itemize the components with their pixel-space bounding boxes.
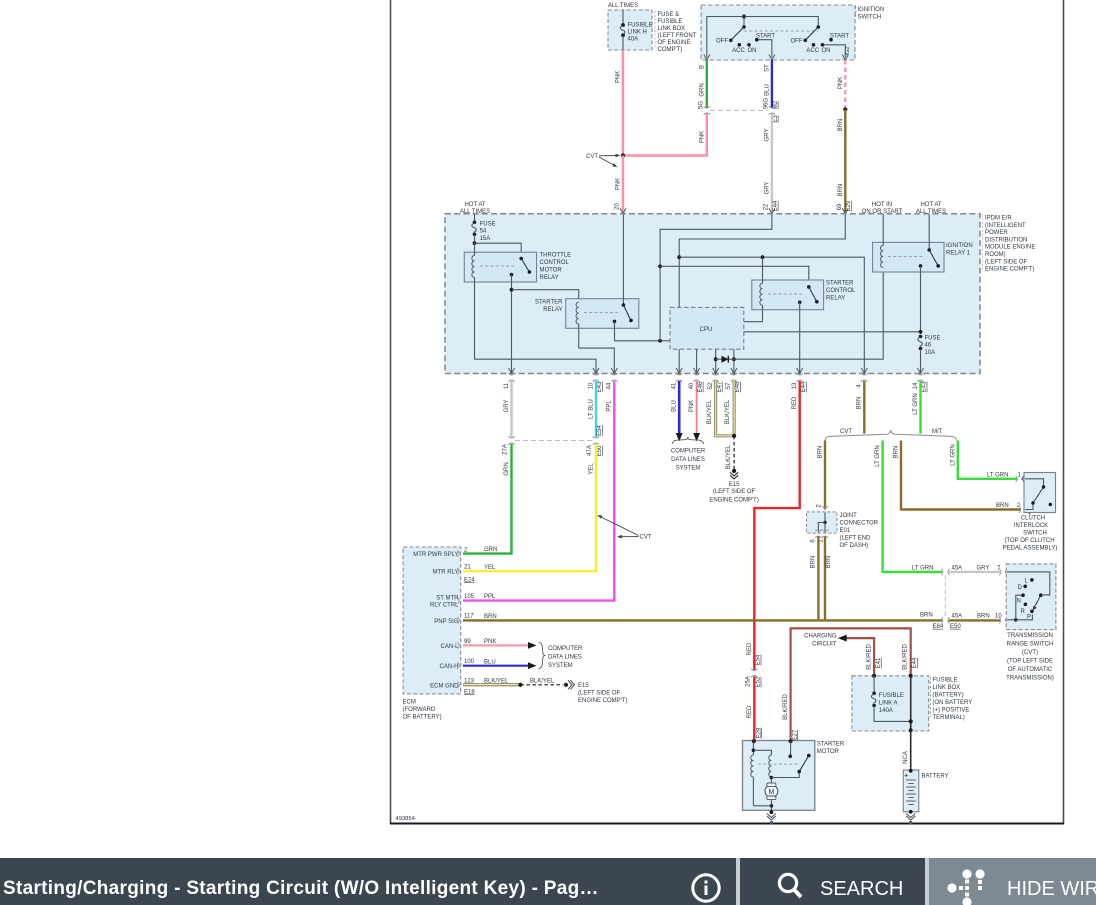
- svg-text:BRN: BRN: [826, 556, 832, 569]
- brace computer data lines: [672, 437, 704, 444]
- svg-text:ACC: ACC: [732, 48, 745, 54]
- svg-text:JOINT: JOINT: [840, 513, 858, 519]
- brace CVT / MT split: [825, 431, 957, 441]
- svg-text:MTR RLY: MTR RLY: [433, 570, 459, 576]
- svg-text:RELAY: RELAY: [543, 307, 562, 313]
- node starter control coil feed: [761, 255, 765, 259]
- CPU box: [670, 307, 744, 349]
- svg-text:FUSIBLE: FUSIBLE: [933, 678, 958, 684]
- svg-text:CONTROL: CONTROL: [826, 288, 856, 294]
- brace computer data lines (ECM side): [539, 642, 546, 669]
- wire LT GRN (MT) to clutch interlock pin 1: [950, 441, 1027, 484]
- svg-text:40A: 40A: [628, 37, 639, 43]
- svg-text:E27: E27: [792, 729, 798, 740]
- svg-text:E50: E50: [597, 445, 603, 456]
- svg-text:E47: E47: [717, 381, 723, 392]
- label HOT IN ON OR START: [862, 202, 903, 215]
- svg-text:22: 22: [764, 203, 770, 210]
- starter motor M: [753, 783, 777, 824]
- svg-text:OFF: OFF: [716, 38, 728, 44]
- wire NCA to battery: [903, 730, 911, 770]
- svg-text:FUSIBLE: FUSIBLE: [658, 19, 683, 25]
- svg-text:E18: E18: [464, 689, 475, 695]
- svg-text:PPL: PPL: [607, 400, 613, 412]
- svg-text:1: 1: [1018, 472, 1022, 478]
- svg-text:ENGINE COMP'T): ENGINE COMP'T): [985, 267, 1034, 273]
- svg-text:ENGINE COMP'T): ENGINE COMP'T): [578, 698, 627, 704]
- svg-text:LINK BOX: LINK BOX: [933, 685, 961, 691]
- svg-text:R: R: [1021, 609, 1026, 615]
- svg-text:GRY: GRY: [977, 566, 990, 572]
- throttle relay coil: [472, 243, 475, 359]
- fusible link H 40A: [620, 10, 652, 50]
- svg-text:COMPUTER: COMPUTER: [671, 449, 706, 455]
- svg-text:RLY CTRL: RLY CTRL: [430, 603, 459, 609]
- label COMPUTER DATA LINES SYSTEM: [671, 449, 706, 472]
- page frame bottom border: [390, 823, 1064, 825]
- svg-text:RED: RED: [792, 396, 798, 409]
- wire PNK fusible link to CVT junction: [616, 50, 624, 156]
- svg-text:ECM GND: ECM GND: [430, 683, 459, 689]
- svg-text:(TOP LEFT SIDE: (TOP LEFT SIDE: [1007, 659, 1053, 665]
- starter control relay coil: [760, 257, 763, 322]
- wire dashed to ground E15: [726, 436, 738, 479]
- label CVT with arrows: [586, 154, 621, 168]
- svg-text:LT GRN: LT GRN: [950, 444, 956, 465]
- svg-text:E43: E43: [597, 381, 603, 392]
- wire pin69 BRN feed: [679, 215, 845, 308]
- svg-text:493854: 493854: [396, 816, 416, 822]
- svg-text:LINK H: LINK H: [628, 30, 647, 36]
- info icon: [690, 872, 723, 905]
- svg-text:BRN: BRN: [920, 612, 933, 618]
- svg-text:OF AUTOMATIC: OF AUTOMATIC: [1008, 667, 1053, 673]
- svg-text:IPDM E/R: IPDM E/R: [985, 216, 1012, 222]
- wire HOT AT ALL TIMES to ignition relay contact: [928, 215, 930, 251]
- svg-text:2: 2: [817, 504, 823, 508]
- svg-text:+: +: [904, 773, 908, 780]
- svg-text:MOTOR: MOTOR: [817, 749, 840, 755]
- svg-text:CLUTCH: CLUTCH: [1021, 516, 1045, 522]
- fusible link box (battery): [852, 676, 929, 731]
- node fuse46 junction: [919, 330, 923, 334]
- svg-text:100: 100: [464, 659, 475, 665]
- ignition switch internal wires: [707, 15, 846, 58]
- svg-text:BRN: BRN: [838, 184, 844, 197]
- svg-text:E44: E44: [912, 657, 918, 668]
- pin 57 E48 / wire BLKYEL: [725, 381, 741, 436]
- svg-text:RELAY: RELAY: [540, 275, 559, 281]
- node pin69 branch: [677, 255, 681, 259]
- CPU pins to exits 41 40 52 57: [678, 349, 680, 372]
- svg-text:E54: E54: [597, 425, 603, 436]
- svg-text:N: N: [1017, 599, 1021, 605]
- svg-text:DATA LINES: DATA LINES: [548, 655, 582, 661]
- svg-text:10: 10: [995, 614, 1002, 620]
- pin 19 E44 / wire RED to starter motor: [745, 381, 807, 741]
- dashed connector link 45A: [944, 575, 946, 617]
- side note FUSE & FUSIBLE LINK BOX: [655, 11, 697, 53]
- wire BLU ignition switch ST to connector: [764, 60, 779, 123]
- svg-text:41: 41: [672, 382, 678, 389]
- svg-text:GRY: GRY: [764, 129, 770, 142]
- svg-text:B: B: [699, 65, 705, 69]
- wire inside box to battery: [909, 676, 913, 733]
- svg-text:BLK/YEL: BLK/YEL: [707, 399, 713, 424]
- search icon: [773, 870, 807, 904]
- svg-text:PPL: PPL: [484, 594, 496, 600]
- label CVT with arrows to YEL and PPL: [597, 515, 652, 541]
- label ground E15: [709, 482, 758, 504]
- wire CPU right to fuse46 junction: [744, 331, 921, 333]
- label transmission range switch: [1006, 633, 1054, 682]
- svg-text:TERMINAL): TERMINAL): [933, 715, 965, 721]
- svg-text:E15: E15: [729, 482, 740, 488]
- svg-text:E46: E46: [698, 381, 704, 392]
- wire diode line to ignition relay coil: [734, 267, 883, 359]
- svg-text:PEDAL ASSEMBLY): PEDAL ASSEMBLY): [1003, 546, 1058, 552]
- svg-text:E52: E52: [756, 676, 762, 687]
- svg-text:(LEFT SIDE OF: (LEFT SIDE OF: [985, 259, 1028, 265]
- svg-text:ALL TIMES: ALL TIMES: [460, 209, 490, 215]
- svg-text:ALL TIMES: ALL TIMES: [608, 3, 638, 9]
- svg-text:105: 105: [464, 594, 475, 600]
- svg-text:COMPUTER: COMPUTER: [548, 646, 583, 652]
- svg-text:6: 6: [811, 539, 817, 543]
- wire BRN (MT) to clutch interlock pin 2: [894, 441, 1031, 515]
- page frame right border: [1063, 0, 1065, 824]
- svg-text:STARTER: STARTER: [535, 300, 563, 306]
- svg-text:OF DASH): OF DASH): [840, 543, 869, 549]
- pin 52 E47 / wire BLKYEL: [707, 381, 734, 436]
- svg-text:IG2: IG2: [845, 47, 851, 56]
- svg-text:LINK BOX: LINK BOX: [658, 26, 686, 32]
- svg-text:CVT: CVT: [840, 429, 852, 435]
- svg-text:FUSIBLE: FUSIBLE: [628, 23, 653, 29]
- svg-text:BLK/RED: BLK/RED: [903, 644, 909, 670]
- svg-text:SYSTEM: SYSTEM: [548, 663, 573, 669]
- label joint connector E01: [840, 513, 879, 549]
- svg-text:YEL: YEL: [484, 565, 496, 571]
- svg-text:BLK/RED: BLK/RED: [783, 694, 789, 720]
- svg-text:ON OR START: ON OR START: [862, 209, 903, 215]
- svg-text:IGNITION: IGNITION: [946, 243, 973, 249]
- svg-text:ECM: ECM: [403, 700, 416, 706]
- svg-text:ON: ON: [822, 48, 831, 54]
- svg-text:BLK/YEL: BLK/YEL: [725, 399, 731, 424]
- svg-text:(LEFT SIDE OF: (LEFT SIDE OF: [713, 489, 756, 495]
- IPDM bottom border exit connector bubbles: [508, 373, 923, 381]
- svg-text:BRN: BRN: [484, 614, 497, 620]
- label COMPUTER DATA LINES SYSTEM (ECM side): [548, 646, 583, 669]
- ECM box: [403, 547, 461, 694]
- ECM pin bubbles: [458, 550, 460, 688]
- svg-text:FUSE: FUSE: [925, 336, 941, 342]
- svg-text:LT GRN: LT GRN: [912, 566, 933, 572]
- wire GRN ignition switch B to connector 5G: [699, 60, 711, 115]
- svg-text:140A: 140A: [879, 708, 893, 714]
- svg-text:(+) POSITIVE: (+) POSITIVE: [933, 708, 970, 714]
- svg-text:(FORWARD: (FORWARD: [403, 707, 436, 713]
- wire BRN (CVT) to joint connector E01: [817, 441, 829, 515]
- svg-text:SWITCH: SWITCH: [858, 15, 882, 21]
- node starter output / pin22 junction: [658, 339, 662, 343]
- wire LT GRN (CVT) to transmission range switch: [875, 441, 962, 576]
- svg-text:D: D: [1018, 585, 1023, 591]
- battery: [903, 769, 948, 824]
- svg-text:RELAY 1: RELAY 1: [946, 251, 971, 257]
- svg-text:15A: 15A: [480, 236, 491, 242]
- wire BLKYEL ECM GND: [463, 678, 575, 689]
- svg-text:14: 14: [913, 382, 919, 389]
- ECM pin numbers: [464, 548, 475, 696]
- svg-text:45A: 45A: [952, 566, 963, 572]
- svg-text:SYSTEM: SYSTEM: [676, 466, 701, 472]
- wire GRY connector to IPDM pin 22: [764, 114, 779, 214]
- ignition relay coil: [881, 215, 884, 268]
- svg-text:(LEFT SIDE OF: (LEFT SIDE OF: [578, 691, 621, 697]
- svg-text:START: START: [830, 33, 849, 39]
- ignition switch box: [701, 5, 855, 60]
- svg-text:BATTERY: BATTERY: [922, 773, 949, 779]
- svg-text:YEL: YEL: [588, 463, 594, 475]
- svg-text:RED: RED: [747, 705, 753, 718]
- svg-text:BLK/YEL: BLK/YEL: [484, 678, 509, 684]
- svg-text:P: P: [1027, 614, 1031, 620]
- svg-text:45A: 45A: [952, 614, 963, 620]
- svg-text:ST MTR: ST MTR: [436, 596, 459, 602]
- svg-text:ACC: ACC: [806, 48, 819, 54]
- fusible link A 140A: [871, 676, 910, 722]
- wire starter control output to exit 19: [799, 302, 801, 372]
- svg-text:GRN: GRN: [504, 462, 510, 475]
- joint connector E01 box: [807, 512, 838, 533]
- svg-text:START: START: [756, 33, 775, 39]
- wire BRN node to IPDM pin 69: [837, 110, 852, 214]
- svg-text:FUSE &: FUSE &: [658, 12, 680, 18]
- node throttle output branch: [510, 288, 514, 292]
- wire PNK CAN-L to computer data lines: [463, 639, 537, 649]
- svg-text:CVT: CVT: [640, 535, 652, 541]
- svg-text:E84: E84: [933, 624, 944, 630]
- wire YEL connector to ECM pin 21: [463, 444, 596, 571]
- svg-text:ENGINE COMP'T): ENGINE COMP'T): [709, 498, 758, 504]
- svg-text:E15: E15: [578, 683, 589, 689]
- svg-text:10A: 10A: [925, 350, 936, 356]
- svg-text:OF BATTERY): OF BATTERY): [403, 715, 442, 721]
- wire GRY connector to TRS pin 7: [949, 566, 1011, 577]
- node BLKYEL junction: [732, 434, 736, 438]
- wire PNK connector to CVT junction elbow: [625, 114, 707, 156]
- wire branch to starter control relay contact: [660, 266, 809, 287]
- svg-text:96G: 96G: [764, 97, 770, 109]
- wire BLKRED charging circuit arrow: [838, 635, 882, 676]
- svg-text:4: 4: [857, 384, 863, 388]
- IPDM bottom border exit arrows: [509, 368, 924, 374]
- label ECM (FORWARD OF BATTERY): [403, 700, 442, 721]
- svg-text:PNK: PNK: [838, 77, 844, 89]
- transmission range switch box: [1006, 564, 1056, 630]
- connector dashed line M2: [710, 110, 768, 112]
- wire starter relay output to CPU: [615, 321, 671, 340]
- svg-text:ON: ON: [748, 48, 757, 54]
- starter switch contacts: [788, 741, 810, 773]
- svg-text:LT GRN: LT GRN: [875, 445, 881, 466]
- node pin22 branch to starter control relay: [658, 264, 662, 268]
- starter relay switch: [613, 303, 633, 323]
- svg-text:LT GRN: LT GRN: [913, 393, 919, 414]
- svg-text:13: 13: [792, 382, 798, 389]
- wire ignition relay output to fuse 46: [920, 266, 922, 334]
- TRS internals: [1007, 572, 1050, 622]
- svg-text:TRANSMISSION: TRANSMISSION: [1007, 633, 1053, 639]
- wire PNK dashed ignition switch IG2: [838, 60, 848, 112]
- fuse & fusible link box: [608, 10, 652, 50]
- svg-text:PNK: PNK: [616, 178, 622, 190]
- svg-text:E01: E01: [840, 528, 851, 534]
- throttle relay switch: [510, 257, 532, 277]
- wire branch to starter relay coil: [512, 290, 579, 302]
- svg-text:E43: E43: [922, 381, 928, 392]
- svg-text:117: 117: [464, 614, 474, 620]
- node CVT junction: [621, 153, 625, 157]
- svg-text:E28: E28: [756, 727, 762, 738]
- svg-text:RELAY: RELAY: [826, 296, 845, 302]
- svg-text:MODULE ENGINE: MODULE ENGINE: [985, 245, 1035, 251]
- label HOT AT ALL TIMES (fuse 54): [460, 202, 490, 215]
- svg-text:PNP SIG: PNP SIG: [434, 619, 459, 625]
- label fusible link box (battery): [930, 677, 972, 721]
- wire branch to ignition coil / BRN 4 exit: [679, 257, 864, 372]
- svg-text:NCA: NCA: [903, 751, 909, 764]
- svg-text:BRN: BRN: [977, 614, 990, 620]
- svg-text:PNK: PNK: [616, 71, 622, 83]
- svg-text:E44: E44: [801, 381, 807, 392]
- svg-text:(LEFT FRONT: (LEFT FRONT: [658, 33, 697, 39]
- svg-text:BLK/YEL: BLK/YEL: [530, 678, 555, 684]
- svg-text:ROOM): ROOM): [985, 252, 1006, 258]
- svg-text:FUSE: FUSE: [480, 222, 496, 228]
- svg-text:27A: 27A: [502, 444, 508, 455]
- svg-text:10: 10: [588, 382, 594, 389]
- svg-text:MOTOR: MOTOR: [540, 268, 563, 274]
- svg-text:LINK A: LINK A: [879, 701, 898, 707]
- svg-text:RANGE SWITCH: RANGE SWITCH: [1007, 642, 1054, 648]
- wire fuse54 to throttle relay contact: [475, 243, 522, 257]
- throttle control motor relay box: [464, 252, 536, 282]
- wire pin20 feed to starter relay contact: [622, 215, 624, 306]
- connector dashed line 27A-E50: [515, 440, 592, 442]
- starter control relay switch: [798, 285, 819, 304]
- svg-text:OF ENGINE: OF ENGINE: [658, 40, 691, 46]
- clutch interlock switch internals: [1025, 479, 1052, 510]
- starter solenoid coils: [751, 741, 799, 806]
- svg-text:BRN: BRN: [894, 446, 900, 459]
- svg-text:DATA LINES: DATA LINES: [671, 457, 705, 463]
- label clutch interlock switch: [1003, 516, 1058, 552]
- mechanical link dashed: [744, 30, 818, 32]
- svg-text:40: 40: [689, 382, 695, 389]
- svg-text:BRN: BRN: [857, 397, 863, 410]
- diode: [714, 356, 736, 363]
- svg-text:MTR PWR SPLY: MTR PWR SPLY: [413, 552, 458, 558]
- svg-text:THROTTLE: THROTTLE: [540, 253, 572, 259]
- svg-text:46: 46: [925, 343, 932, 349]
- svg-text:PNK: PNK: [484, 639, 496, 645]
- ignition switch bottom border exit arrows: [704, 55, 849, 61]
- label HOT AT ALL TIMES (top, clipped): [608, 0, 638, 9]
- wire throttle coil bottom to exit 10: [475, 359, 597, 372]
- svg-text:PNK: PNK: [699, 131, 705, 143]
- svg-text:(LEFT END: (LEFT END: [840, 536, 872, 542]
- wires BRN from joint connector down: [810, 537, 832, 621]
- svg-text:ALL TIMES: ALL TIMES: [916, 209, 946, 215]
- svg-text:BRN: BRN: [838, 119, 844, 132]
- svg-text:(CVT): (CVT): [1022, 650, 1038, 656]
- fuse 46 10A: [918, 335, 941, 373]
- svg-text:CAN-L: CAN-L: [440, 644, 459, 650]
- label ground E15 (ECM side): [578, 683, 627, 704]
- label IPDM E/R side note: [983, 215, 1036, 273]
- starter control relay box: [752, 280, 824, 310]
- svg-text:BRN: BRN: [818, 446, 824, 459]
- svg-text:TRANSMISSION): TRANSMISSION): [1006, 676, 1054, 682]
- svg-text:11: 11: [504, 382, 510, 389]
- svg-text:BLU: BLU: [764, 84, 770, 96]
- svg-text:44: 44: [607, 382, 613, 389]
- svg-text:M/T: M/T: [932, 429, 943, 435]
- svg-text:COMP'T): COMP'T): [658, 47, 683, 53]
- svg-text:E50: E50: [950, 624, 961, 630]
- svg-text:ST: ST: [764, 64, 770, 72]
- switch 1 (B contact set): [716, 25, 775, 54]
- svg-text:GRN: GRN: [484, 547, 497, 553]
- svg-text:57: 57: [726, 382, 732, 389]
- svg-text:E54: E54: [756, 654, 762, 665]
- svg-text:E48: E48: [735, 381, 741, 392]
- starter relay box: [566, 299, 639, 329]
- svg-text:E41: E41: [876, 657, 882, 668]
- svg-text:PNK: PNK: [689, 400, 695, 412]
- svg-text:LT GRN: LT GRN: [987, 472, 1008, 478]
- wire BLU CAN-H to computer data lines: [463, 659, 537, 669]
- svg-text:DISTRIBUTION: DISTRIBUTION: [985, 237, 1027, 243]
- svg-text:47A: 47A: [587, 445, 593, 456]
- svg-text:STARTER: STARTER: [817, 742, 845, 748]
- pin 10 E43 / wire LTBLU: [587, 381, 603, 456]
- svg-text:CONNECTOR: CONNECTOR: [840, 521, 879, 527]
- pin 44 / wire PPL to ECM pin 105: [463, 381, 614, 601]
- pin 4 / wire BRN to CVT-MT brace: [857, 381, 865, 434]
- svg-text:HOT AT: HOT AT: [612, 0, 633, 2]
- svg-text:HOT AT: HOT AT: [464, 202, 485, 208]
- fuse 54 15A: [472, 215, 496, 244]
- svg-text:GRY: GRY: [504, 400, 510, 413]
- svg-text:CONTROL: CONTROL: [540, 260, 570, 266]
- svg-text:GRY: GRY: [764, 182, 770, 195]
- wires icon: [940, 866, 990, 905]
- svg-text:HOT AT: HOT AT: [920, 202, 941, 208]
- svg-text:5G: 5G: [699, 101, 705, 109]
- svg-text:HOT IN: HOT IN: [872, 202, 892, 208]
- svg-text:BRN: BRN: [996, 503, 1009, 509]
- clutch interlock switch box: [1024, 473, 1056, 513]
- wire GRN connector to ECM pin 2: [463, 444, 512, 554]
- svg-text:RED: RED: [747, 642, 753, 655]
- wire throttle relay output to exit 11: [511, 275, 513, 373]
- svg-text:(INTELLIGENT: (INTELLIGENT: [985, 223, 1026, 229]
- svg-text:STARTER: STARTER: [826, 281, 854, 287]
